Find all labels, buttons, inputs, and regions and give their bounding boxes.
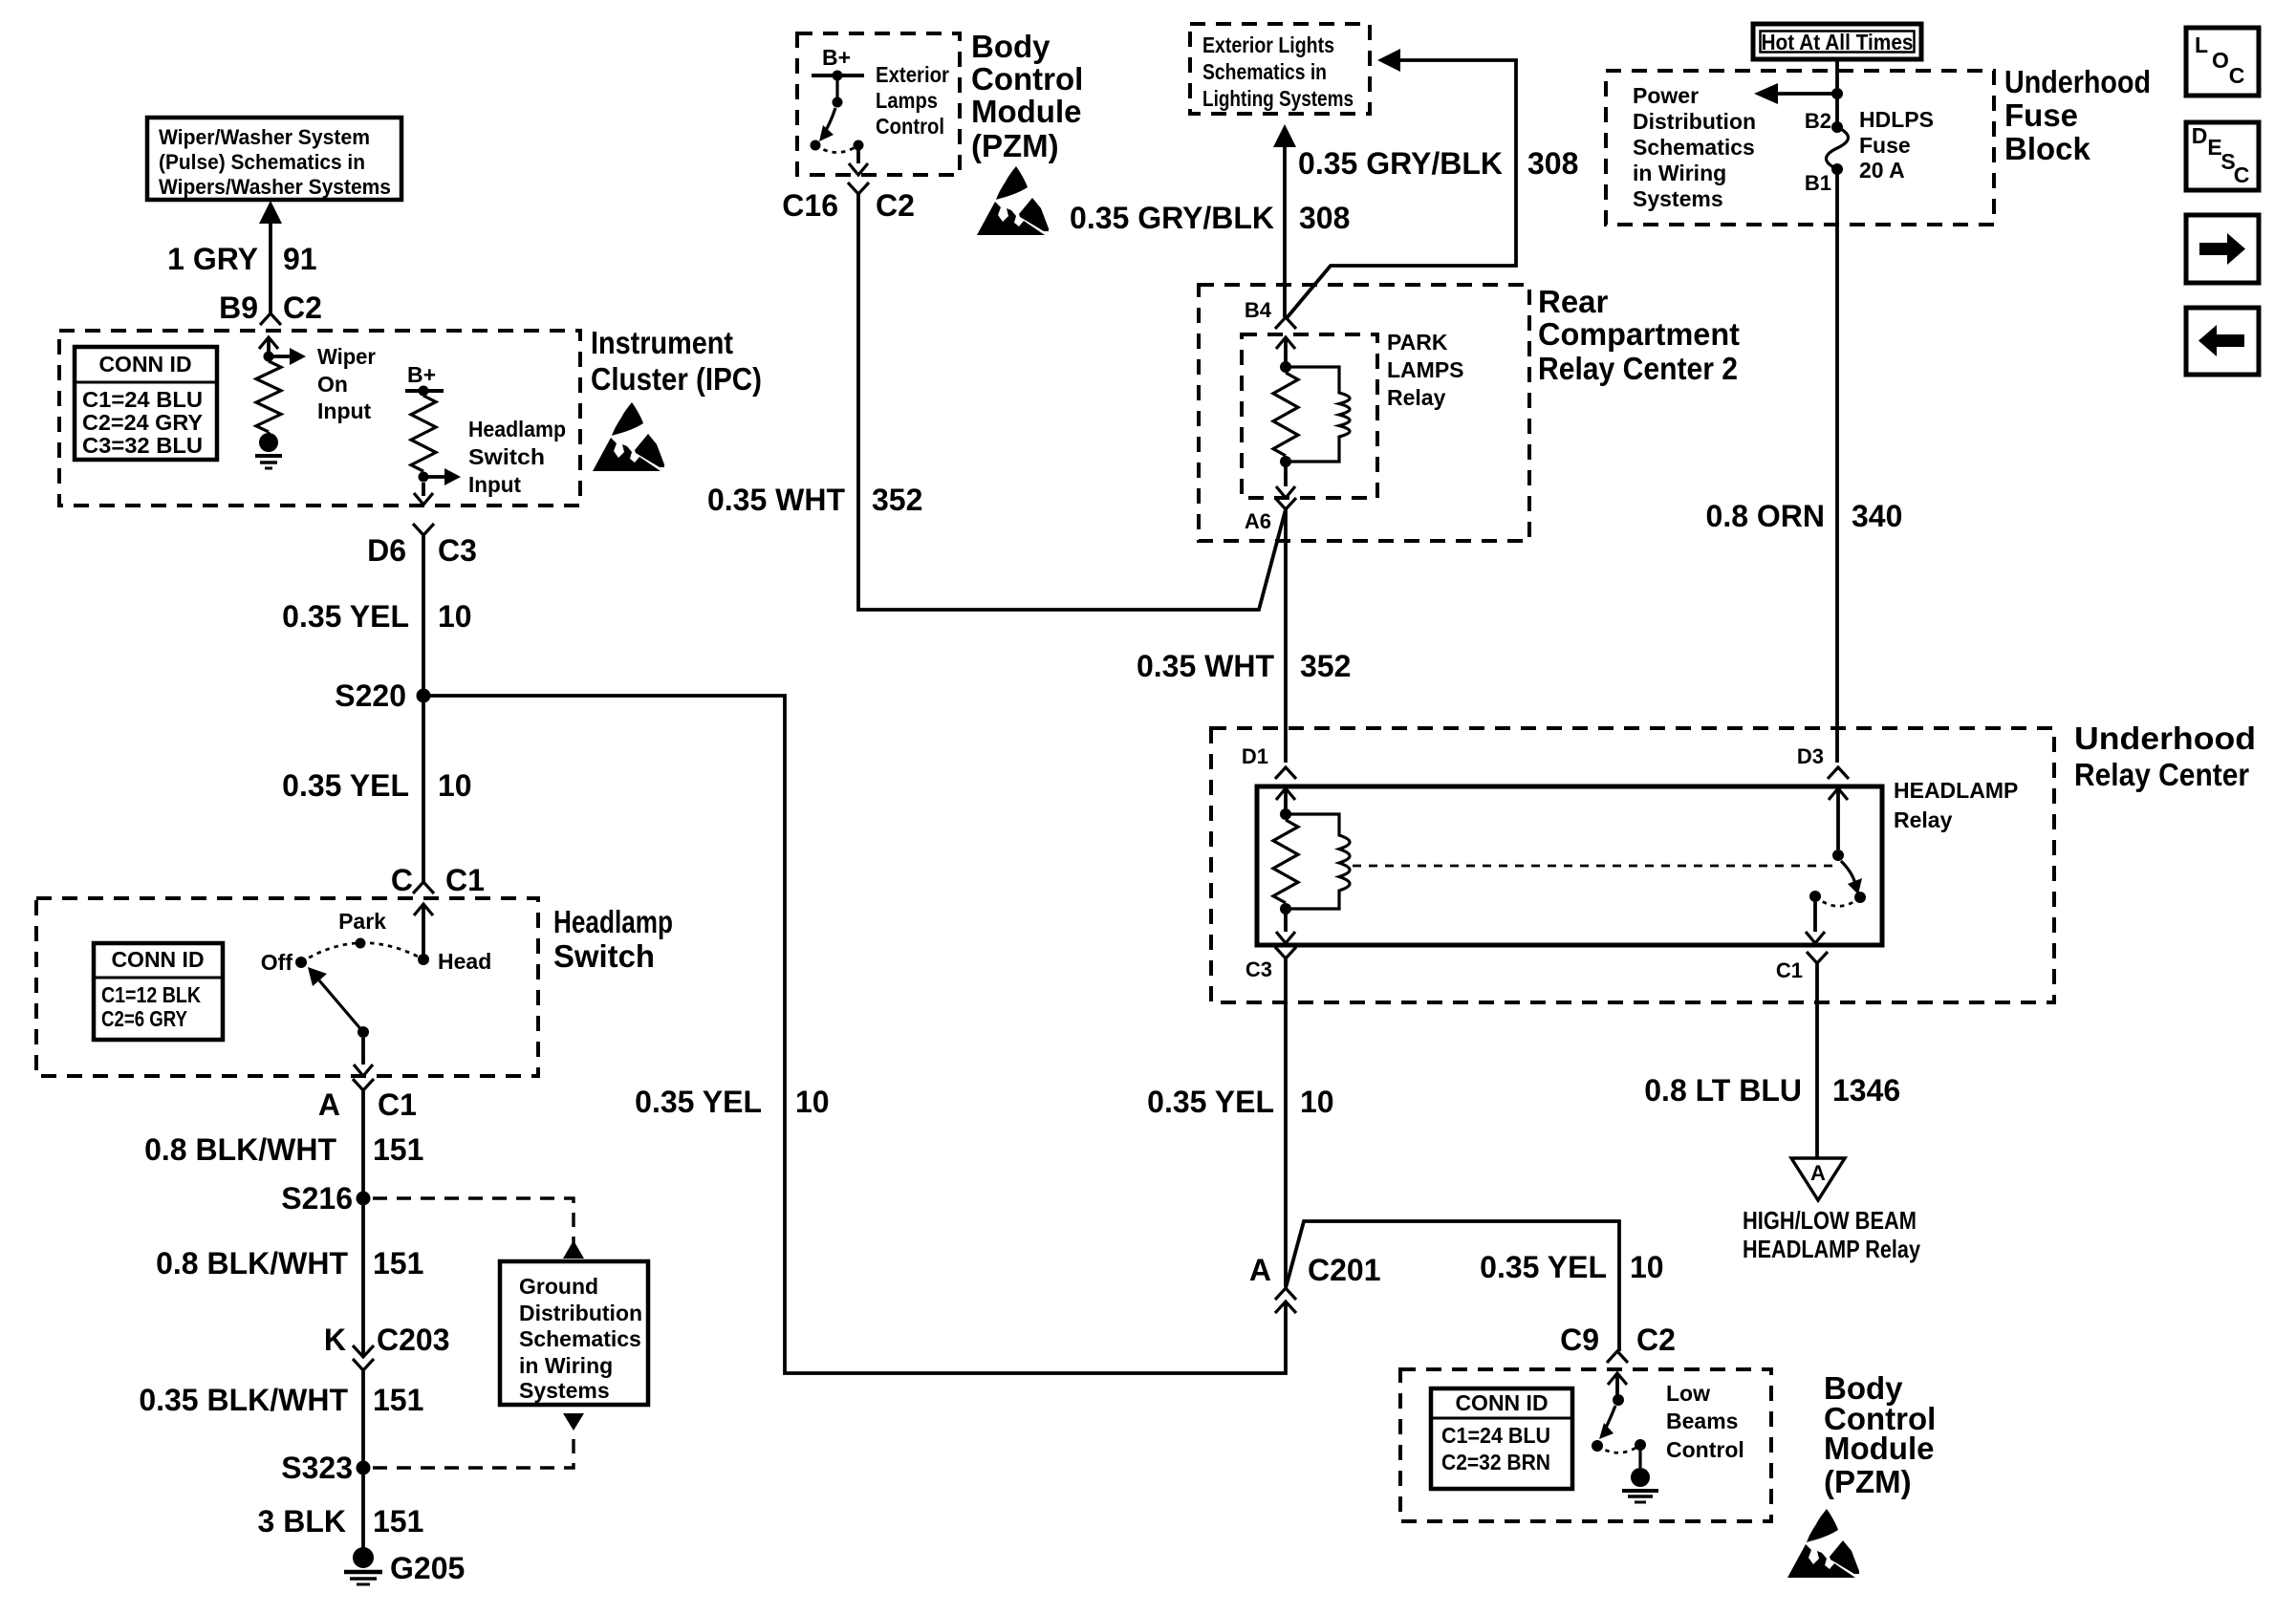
label: HEADLAMP Relay	[1894, 778, 2018, 832]
ground G205	[344, 1547, 465, 1585]
label: PARK LAMPS Relay	[1387, 330, 1464, 410]
ground symbol (IPC wiper)	[255, 432, 282, 468]
wire: 0.35 GRY/BLK 308 loop to exterior lights right	[1286, 49, 1516, 319]
label: 0.8 LT BLU 1346	[1644, 1073, 1900, 1108]
svg-text:C16: C16	[782, 188, 838, 223]
icon box: arrow right	[2186, 215, 2259, 283]
svg-text:Module: Module	[1824, 1431, 1934, 1466]
connector A/C1	[353, 1079, 374, 1090]
wire: 0.35 WHT 352 from BCM C2 to A6	[858, 194, 1286, 610]
svg-text:L: L	[2195, 32, 2208, 57]
label: 0.8 ORN 340	[1706, 499, 1903, 533]
connector D6/C3	[413, 524, 434, 535]
switch: Exterior Lamps Control	[811, 75, 869, 175]
label: Headlamp Switch (module)	[553, 904, 673, 974]
switch contact: Park	[338, 909, 386, 949]
svg-text:0.8 BLK/WHT: 0.8 BLK/WHT	[144, 1132, 336, 1167]
connector C9/C2	[1607, 1351, 1628, 1363]
svg-text:C3: C3	[438, 533, 477, 568]
svg-text:On: On	[317, 372, 348, 397]
svg-text:0.35 BLK/WHT: 0.35 BLK/WHT	[139, 1383, 348, 1417]
CONN ID table (BCM)	[1431, 1388, 1572, 1489]
svg-text:O: O	[2212, 48, 2229, 73]
svg-text:151: 151	[373, 1246, 423, 1280]
label: 1 GRY 91	[167, 242, 316, 276]
svg-text:Underhood: Underhood	[2004, 64, 2151, 99]
label: pins A / C201	[1249, 1253, 1381, 1287]
svg-text:1346: 1346	[1832, 1073, 1900, 1108]
label: 0.8 BLK/WHT 151	[144, 1132, 423, 1167]
wire: 0.35 GRY/BLK 308 up-arrow to exterior lights	[1273, 124, 1296, 317]
svg-text:(Pulse) Schematics in: (Pulse) Schematics in	[159, 150, 365, 174]
wire: 0.8 LT BLU 1346 from C1	[1815, 963, 1819, 1158]
svg-text:Ground: Ground	[519, 1274, 598, 1299]
svg-text:B9: B9	[219, 291, 258, 325]
svg-text:Systems: Systems	[1633, 186, 1723, 211]
label: Body Control Module (PZM) bottom	[1824, 1370, 1936, 1499]
wire: 1 GRY 91 up-arrow to wiper/washer schematics	[259, 201, 282, 313]
wire: hot feed into fuse block	[1835, 59, 1839, 127]
ESD symbol (BCM bottom)	[1787, 1509, 1859, 1578]
svg-text:Relay Center 2: Relay Center 2	[1538, 351, 1738, 386]
svg-text:Beams: Beams	[1666, 1409, 1738, 1433]
label: 0.35 BLK/WHT 151	[139, 1383, 423, 1417]
svg-text:352: 352	[872, 483, 922, 517]
svg-text:S220: S220	[335, 678, 406, 713]
wire: 0.8 BLK/WHT 151 headlamp switch to C203	[361, 1090, 365, 1356]
wire: 0.35 YEL 10 branch from S220 to C201	[423, 696, 1286, 1373]
svg-text:Wiper: Wiper	[317, 344, 376, 369]
relay box: HEADLAMP Relay solid	[1257, 786, 1882, 945]
svg-text:Fuse: Fuse	[1859, 133, 1911, 158]
splice S323	[281, 1451, 370, 1485]
svg-text:HDLPS: HDLPS	[1859, 107, 1934, 132]
connector C/C1	[413, 882, 434, 893]
connector D1	[1275, 767, 1296, 779]
svg-text:C2: C2	[283, 291, 322, 325]
label: 0.8 BLK/WHT 151	[156, 1246, 423, 1280]
svg-text:10: 10	[438, 599, 472, 634]
svg-text:151: 151	[373, 1383, 423, 1417]
svg-text:Head: Head	[438, 949, 491, 974]
fuse: HDLPS Fuse 20 A	[1827, 121, 1849, 175]
svg-text:K: K	[324, 1323, 346, 1357]
relay mechanical dashed link	[1353, 865, 1832, 868]
wire: 0.35 YEL 10 from C201 to BCM C9/C2	[1286, 1221, 1619, 1351]
svg-text:308: 308	[1527, 146, 1578, 181]
relay box: PARK LAMPS Relay dashed	[1242, 334, 1377, 498]
svg-text:Schematics in: Schematics in	[1202, 59, 1327, 84]
connector C1	[1807, 952, 1828, 963]
module: Headlamp Switch dashed box	[36, 898, 538, 1076]
svg-text:HEADLAMP: HEADLAMP	[1894, 778, 2018, 803]
svg-text:A6: A6	[1245, 509, 1271, 533]
svg-text:B4: B4	[1245, 298, 1272, 322]
svg-text:Systems: Systems	[519, 1378, 610, 1403]
inline connector A/C201	[1275, 1288, 1296, 1313]
svg-text:Control: Control	[876, 114, 944, 139]
svg-text:91: 91	[283, 242, 317, 276]
connector D3	[1828, 767, 1849, 779]
label: Exterior Lamps Control	[876, 62, 949, 139]
module: Underhood Fuse Block dashed box	[1606, 71, 1994, 225]
reference box: Wiper/Washer System schematics	[147, 118, 401, 200]
svg-text:Park: Park	[338, 909, 386, 934]
svg-text:A: A	[318, 1087, 340, 1122]
node: wiper resistor top	[264, 352, 274, 362]
svg-text:3 BLK: 3 BLK	[258, 1504, 346, 1539]
svg-text:Cluster (IPC): Cluster (IPC)	[591, 361, 762, 397]
svg-text:PARK: PARK	[1387, 330, 1448, 355]
svg-text:Off: Off	[261, 950, 293, 975]
headlamp relay switch	[1806, 788, 1866, 943]
svg-text:10: 10	[795, 1085, 830, 1119]
svg-text:20 A: 20 A	[1859, 158, 1905, 183]
wire: 0.35 YEL 10 from relay C3 down to C201	[1284, 958, 1288, 1286]
svg-text:in Wiring: in Wiring	[519, 1353, 613, 1378]
svg-text:B1: B1	[1805, 171, 1831, 195]
label: Instrument Cluster (IPC)	[591, 325, 762, 397]
svg-text:Lamps: Lamps	[876, 88, 938, 113]
module: Rear Compartment Relay Center 2 dashed box	[1199, 285, 1529, 541]
svg-text:Body: Body	[971, 29, 1051, 64]
svg-text:B2: B2	[1805, 109, 1831, 133]
arrow: IPC output down to D6	[414, 483, 433, 505]
arrow: into headlamp switch (Head feed)	[414, 904, 433, 959]
svg-text:Input: Input	[468, 472, 521, 497]
svg-text:0.8 LT BLU: 0.8 LT BLU	[1644, 1073, 1802, 1108]
label: 0.35 YEL 10	[1147, 1085, 1333, 1119]
svg-text:Power: Power	[1633, 83, 1699, 108]
label: Wiper On Input	[317, 344, 376, 423]
svg-text:D1: D1	[1242, 744, 1268, 768]
svg-text:HEADLAMP Relay: HEADLAMP Relay	[1743, 1235, 1920, 1263]
label: 0.35 GRY/BLK 308 (upper)	[1298, 146, 1578, 181]
reference box: Ground Distribution Schematics	[500, 1261, 648, 1405]
label: Low Beams Control	[1666, 1381, 1744, 1462]
splice S216	[281, 1181, 370, 1216]
label: Power Distribution Schematics in Wiring Systems	[1633, 83, 1756, 211]
connector C3	[1275, 947, 1296, 958]
svg-text:C3: C3	[1245, 958, 1272, 981]
switch: Low Beams Control	[1592, 1373, 1658, 1502]
svg-text:Exterior: Exterior	[876, 62, 949, 87]
reference box: Exterior Lights Schematics	[1190, 24, 1370, 114]
label: pins C16 / C2	[782, 188, 915, 223]
signal arrow: Wiper On Input	[269, 348, 306, 365]
svg-text:C2=32 BRN: C2=32 BRN	[1441, 1450, 1550, 1474]
dashed link: S216 to ground distribution schematics	[373, 1198, 584, 1259]
svg-text:Wiper/Washer System: Wiper/Washer System	[159, 125, 370, 149]
svg-text:Wipers/Washer Systems: Wipers/Washer Systems	[159, 175, 391, 199]
svg-text:Distribution: Distribution	[1633, 109, 1756, 134]
svg-text:Switch: Switch	[468, 444, 545, 469]
connector B4	[1275, 317, 1296, 329]
label: 0.35 YEL 10 (to BCM)	[1480, 1250, 1663, 1284]
resistor: headlamp switch input	[411, 396, 436, 471]
label: pins B9 / C2	[219, 291, 322, 325]
label: pins C9 / C2	[1560, 1323, 1676, 1357]
svg-text:C201: C201	[1308, 1253, 1381, 1287]
label: Body Control Module (PZM) top	[971, 29, 1083, 163]
CONN ID table (IPC)	[75, 347, 217, 460]
svg-text:C: C	[391, 863, 413, 897]
connector C16/C2	[848, 183, 869, 194]
label: pins C / C1	[391, 863, 485, 897]
svg-text:C1: C1	[445, 863, 485, 897]
svg-text:Relay: Relay	[1894, 807, 1953, 832]
label: Headlamp Switch Input	[468, 417, 566, 497]
svg-text:308: 308	[1299, 201, 1350, 235]
svg-text:10: 10	[438, 768, 472, 803]
svg-text:C: C	[2229, 63, 2245, 88]
svg-text:Input: Input	[317, 398, 372, 423]
arrow: wiper-on input entering IPC	[259, 337, 278, 356]
wire: 0.8 ORN 340 from B1 to D3	[1835, 169, 1839, 763]
svg-text:Switch: Switch	[553, 938, 655, 974]
svg-text:in Wiring: in Wiring	[1633, 161, 1726, 185]
svg-text:B+: B+	[407, 362, 436, 387]
svg-text:0.35 YEL: 0.35 YEL	[282, 768, 409, 803]
svg-text:0.35 GRY/BLK: 0.35 GRY/BLK	[1298, 146, 1503, 181]
svg-text:CONN ID: CONN ID	[111, 947, 204, 972]
label: 0.35 YEL 10	[282, 768, 471, 803]
park lamps relay coil and resistor	[1273, 337, 1350, 498]
svg-text:C2: C2	[1636, 1323, 1676, 1357]
svg-text:0.35 GRY/BLK: 0.35 GRY/BLK	[1070, 201, 1274, 235]
B+ bar and node (BCM)	[812, 71, 864, 81]
svg-text:G205: G205	[390, 1551, 465, 1585]
svg-text:CONN ID: CONN ID	[1455, 1390, 1548, 1415]
svg-text:Rear: Rear	[1538, 284, 1609, 319]
ESD symbol (IPC)	[593, 402, 664, 471]
svg-text:151: 151	[373, 1132, 423, 1167]
svg-text:Low: Low	[1666, 1381, 1710, 1406]
svg-text:0.35 YEL: 0.35 YEL	[1480, 1250, 1607, 1284]
svg-text:D: D	[2192, 123, 2208, 148]
svg-text:Compartment: Compartment	[1538, 316, 1740, 352]
label: pins K / C203	[324, 1323, 450, 1357]
svg-text:C2=24 GRY: C2=24 GRY	[82, 410, 203, 435]
switch contact: Head	[418, 949, 491, 974]
svg-text:0.35 YEL: 0.35 YEL	[635, 1085, 762, 1119]
connector B9/C2 (IPC)	[260, 313, 281, 325]
wire: 0.35 BLK/WHT 151 C203 to G205	[361, 1370, 365, 1548]
ESD symbol (BCM top)	[977, 166, 1049, 235]
svg-text:Instrument: Instrument	[591, 325, 733, 360]
svg-text:(PZM): (PZM)	[1824, 1464, 1912, 1499]
icon box: LOC	[2186, 28, 2259, 96]
label: pins D6 / C3	[367, 533, 477, 568]
svg-text:LAMPS: LAMPS	[1387, 357, 1464, 382]
label: 0.35 WHT 352	[1137, 649, 1351, 683]
svg-text:151: 151	[373, 1504, 423, 1539]
svg-text:Underhood: Underhood	[2074, 721, 2256, 756]
svg-text:Schematics: Schematics	[1633, 135, 1755, 160]
arrow: headlamp switch output down	[354, 1038, 373, 1076]
svg-text:Relay: Relay	[1387, 385, 1446, 410]
svg-text:C2=6 GRY: C2=6 GRY	[101, 1006, 187, 1031]
svg-text:Control: Control	[1666, 1437, 1744, 1462]
svg-text:B+: B+	[822, 45, 851, 70]
svg-text:0.8 ORN: 0.8 ORN	[1706, 499, 1825, 533]
svg-text:C2: C2	[876, 188, 915, 223]
icon box: arrow left	[2186, 308, 2259, 375]
label: 0.35 YEL 10	[282, 599, 471, 634]
svg-text:1 GRY: 1 GRY	[167, 242, 258, 276]
svg-text:Lighting Systems: Lighting Systems	[1202, 86, 1354, 111]
svg-text:Headlamp: Headlamp	[553, 904, 673, 939]
svg-text:C1: C1	[378, 1087, 417, 1122]
switch travel dashed arc	[301, 943, 423, 962]
svg-text:HIGH/LOW BEAM: HIGH/LOW BEAM	[1743, 1206, 1917, 1235]
module: Body Control Module (PZM) top dashed box	[797, 33, 960, 175]
node: headlamp switch input	[419, 472, 429, 483]
svg-text:(PZM): (PZM)	[971, 128, 1059, 163]
svg-text:10: 10	[1630, 1250, 1664, 1284]
svg-text:C: C	[2234, 162, 2250, 187]
headlamp relay coil and resistor	[1273, 788, 1350, 943]
label: 0.35 YEL 10 (S220 branch)	[635, 1085, 829, 1119]
signal arrow: Headlamp Switch Input	[423, 468, 461, 485]
module: Underhood Relay Center dashed box	[1211, 728, 2054, 1002]
CONN ID table (headlamp switch)	[94, 943, 223, 1040]
resistor: wiper on input	[256, 361, 281, 432]
svg-text:Exterior Lights: Exterior Lights	[1202, 32, 1334, 57]
svg-text:Module: Module	[971, 94, 1081, 129]
svg-text:0.35 WHT: 0.35 WHT	[707, 483, 845, 517]
svg-text:D3: D3	[1797, 744, 1824, 768]
svg-text:C9: C9	[1560, 1323, 1599, 1357]
svg-text:Headlamp: Headlamp	[468, 417, 566, 441]
svg-text:C1: C1	[1776, 958, 1803, 982]
wire: 0.35 YEL 10 from S220 to headlamp switch	[422, 696, 425, 882]
svg-text:S216: S216	[281, 1181, 353, 1216]
svg-text:C1=24 BLU: C1=24 BLU	[1441, 1423, 1550, 1448]
svg-text:10: 10	[1300, 1085, 1334, 1119]
svg-text:CONN ID: CONN ID	[98, 352, 191, 377]
inline connector K/C203	[353, 1345, 374, 1370]
connector A6	[1275, 498, 1296, 509]
label: Underhood Relay Center	[2074, 721, 2256, 792]
svg-text:0.35 YEL: 0.35 YEL	[282, 599, 409, 634]
svg-text:A: A	[1810, 1161, 1826, 1185]
switch lever pointing to Off	[308, 967, 363, 1032]
svg-text:C1=24 BLU: C1=24 BLU	[82, 387, 203, 412]
splice S220	[335, 678, 430, 713]
label: Rear Compartment Relay Center 2	[1538, 284, 1740, 386]
svg-text:C203: C203	[377, 1323, 450, 1357]
svg-text:Distribution: Distribution	[519, 1301, 642, 1325]
arrow: feed to power distribution	[1754, 83, 1843, 104]
wire: 0.35 YEL 10 from IPC to S220	[422, 535, 425, 696]
svg-text:0.8 BLK/WHT: 0.8 BLK/WHT	[156, 1246, 348, 1280]
svg-text:352: 352	[1300, 649, 1351, 683]
module: Instrument Cluster (IPC) dashed box	[59, 331, 580, 506]
label: HIGH/LOW BEAM HEADLAMP Relay	[1743, 1206, 1920, 1263]
label: 3 BLK 151	[258, 1504, 424, 1539]
label: 0.35 WHT 352	[707, 483, 922, 517]
off-page reference triangle A	[1791, 1158, 1845, 1200]
svg-text:Fuse: Fuse	[2004, 97, 2078, 133]
svg-text:Schematics: Schematics	[519, 1326, 641, 1351]
svg-text:Hot At All Times: Hot At All Times	[1762, 30, 1914, 54]
icon box: DESC	[2186, 122, 2259, 190]
svg-text:S323: S323	[281, 1451, 353, 1485]
label: 0.35 GRY/BLK 308 (lower)	[1070, 201, 1350, 235]
svg-text:340: 340	[1852, 499, 1902, 533]
svg-text:Relay Center: Relay Center	[2074, 757, 2249, 792]
module: Body Control Module (PZM) bottom dashed box	[1400, 1369, 1771, 1521]
svg-text:C3=32 BLU: C3=32 BLU	[82, 433, 203, 458]
dashed link: S323 to ground distribution schematics	[373, 1413, 584, 1468]
svg-text:Control: Control	[971, 61, 1083, 97]
label: Underhood Fuse Block	[2004, 64, 2151, 166]
wire: 0.35 WHT 352 from A6 to D1	[1284, 509, 1288, 763]
svg-text:D6: D6	[367, 533, 406, 568]
svg-text:0.35 WHT: 0.35 WHT	[1137, 649, 1274, 683]
B+ supply bar and node	[405, 386, 444, 397]
svg-text:A: A	[1249, 1253, 1271, 1287]
svg-text:Block: Block	[2004, 131, 2091, 166]
label: HDLPS Fuse 20 A	[1859, 107, 1934, 183]
label: pins A / C1	[318, 1087, 417, 1122]
switch contact: Off	[261, 950, 307, 975]
svg-text:0.35 YEL: 0.35 YEL	[1147, 1085, 1274, 1119]
switch pivot node	[357, 1026, 369, 1038]
label box: Hot At All Times	[1753, 24, 1921, 59]
svg-text:C1=12 BLK: C1=12 BLK	[101, 982, 201, 1007]
